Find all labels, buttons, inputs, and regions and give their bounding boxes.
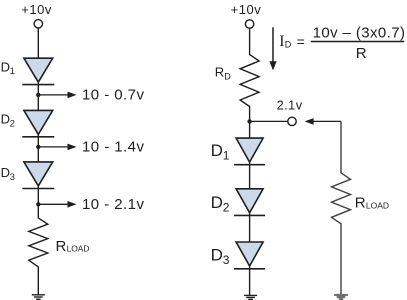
svg-text:1: 1 [10, 66, 15, 77]
svg-text:2.1v: 2.1v [277, 98, 303, 112]
svg-text:D: D [224, 71, 231, 81]
svg-text:+10v: +10v [21, 2, 52, 17]
svg-text:2: 2 [10, 118, 15, 129]
svg-text:10 - 0.7v: 10 - 0.7v [82, 87, 144, 104]
svg-text:LOAD: LOAD [366, 200, 389, 210]
svg-text:D: D [211, 141, 223, 160]
svg-text:3: 3 [10, 172, 15, 183]
svg-text:D: D [1, 112, 10, 127]
svg-text:3: 3 [223, 253, 230, 267]
svg-text:R: R [355, 194, 366, 211]
svg-text:D: D [285, 40, 292, 50]
svg-text:R: R [56, 238, 67, 255]
svg-text:1: 1 [223, 149, 230, 163]
svg-text:10 - 1.4v: 10 - 1.4v [82, 139, 144, 156]
svg-text:+10v: +10v [231, 2, 262, 17]
svg-text:I: I [279, 33, 284, 50]
svg-text:D: D [211, 246, 223, 265]
svg-text:R: R [215, 65, 224, 80]
svg-text:LOAD: LOAD [67, 244, 90, 254]
svg-text:D: D [1, 165, 10, 180]
svg-text:=: = [297, 33, 305, 49]
svg-text:D: D [211, 193, 223, 212]
svg-text:10v – (3x0.7): 10v – (3x0.7) [313, 25, 406, 42]
svg-text:10 - 2.1v: 10 - 2.1v [82, 196, 144, 213]
svg-text:2: 2 [223, 201, 230, 215]
svg-text:D: D [1, 59, 10, 74]
svg-text:R: R [356, 45, 367, 62]
